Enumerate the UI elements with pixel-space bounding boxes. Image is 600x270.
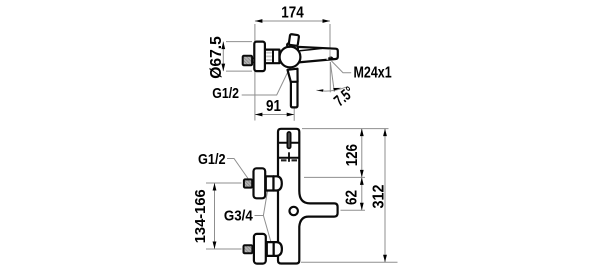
svg-text:G3/4: G3/4: [224, 208, 253, 225]
svg-text:G1/2: G1/2: [198, 151, 226, 168]
svg-text:312: 312: [371, 184, 388, 208]
svg-text:M24x1: M24x1: [354, 65, 392, 82]
svg-text:Ø67.5: Ø67.5: [208, 36, 225, 79]
svg-text:62: 62: [344, 190, 361, 205]
svg-text:7.5°: 7.5°: [331, 84, 358, 110]
svg-text:126: 126: [344, 144, 361, 166]
svg-text:174: 174: [281, 5, 303, 22]
svg-text:G1/2: G1/2: [212, 85, 239, 102]
svg-text:134-166: 134-166: [192, 189, 209, 243]
svg-text:91: 91: [266, 98, 281, 115]
